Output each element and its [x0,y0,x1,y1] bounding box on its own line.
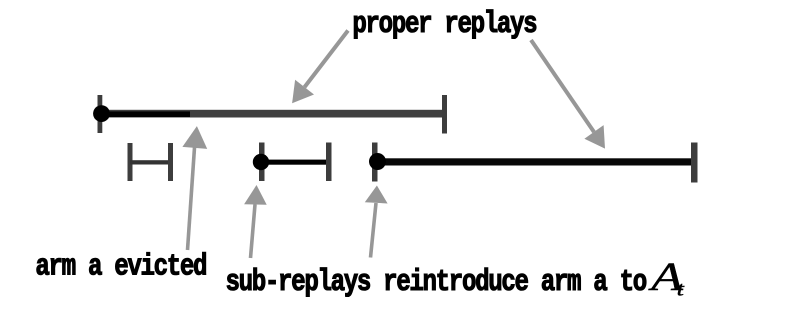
interval 1 gray replay line [100,110,445,118]
arrow 4 shaft (sub-replays label up to interval 2 dot) [251,205,256,259]
interval 1 right tick [442,95,447,134]
svg-text:arm a evicted: arm a evicted [35,250,206,285]
interval 1 left tick [98,95,103,133]
svg-text:proper replays: proper replays [352,7,536,42]
svg-text:t: t [677,278,685,300]
interval 2 line [261,160,329,165]
arrow 3 head [182,126,207,149]
small interval line [130,160,171,164]
interval 3 left tick [372,143,378,182]
arrow 1 shaft (proper replays to interval 1) [305,31,349,88]
arrow 5 head [365,186,388,204]
interval 3 right tick [691,143,698,183]
small interval right tick [168,143,173,181]
arrow 2 head [584,125,605,149]
arrow 3 shaft (arm a evicted up to interval 1) [188,148,195,251]
interval 1 start dot [93,105,110,122]
interval 3 long line [377,158,694,165]
small interval left tick [128,143,133,181]
interval 2 right tick [326,143,332,182]
interval 1 black played segment [102,111,190,117]
interval 3 start dot [369,153,386,170]
arrow 5 shaft (sub-replays label up to interval 3 dot) [371,203,377,258]
interval 2 start dot [253,154,269,170]
svg-text:sub-replays reintroduce arm a: sub-replays reintroduce arm a to [226,265,647,300]
interval 2 left tick [259,143,265,182]
arrow 4 head [244,185,267,205]
arrow 2 shaft (proper replays to interval 3) [531,40,594,132]
arrow 1 head [292,80,314,104]
